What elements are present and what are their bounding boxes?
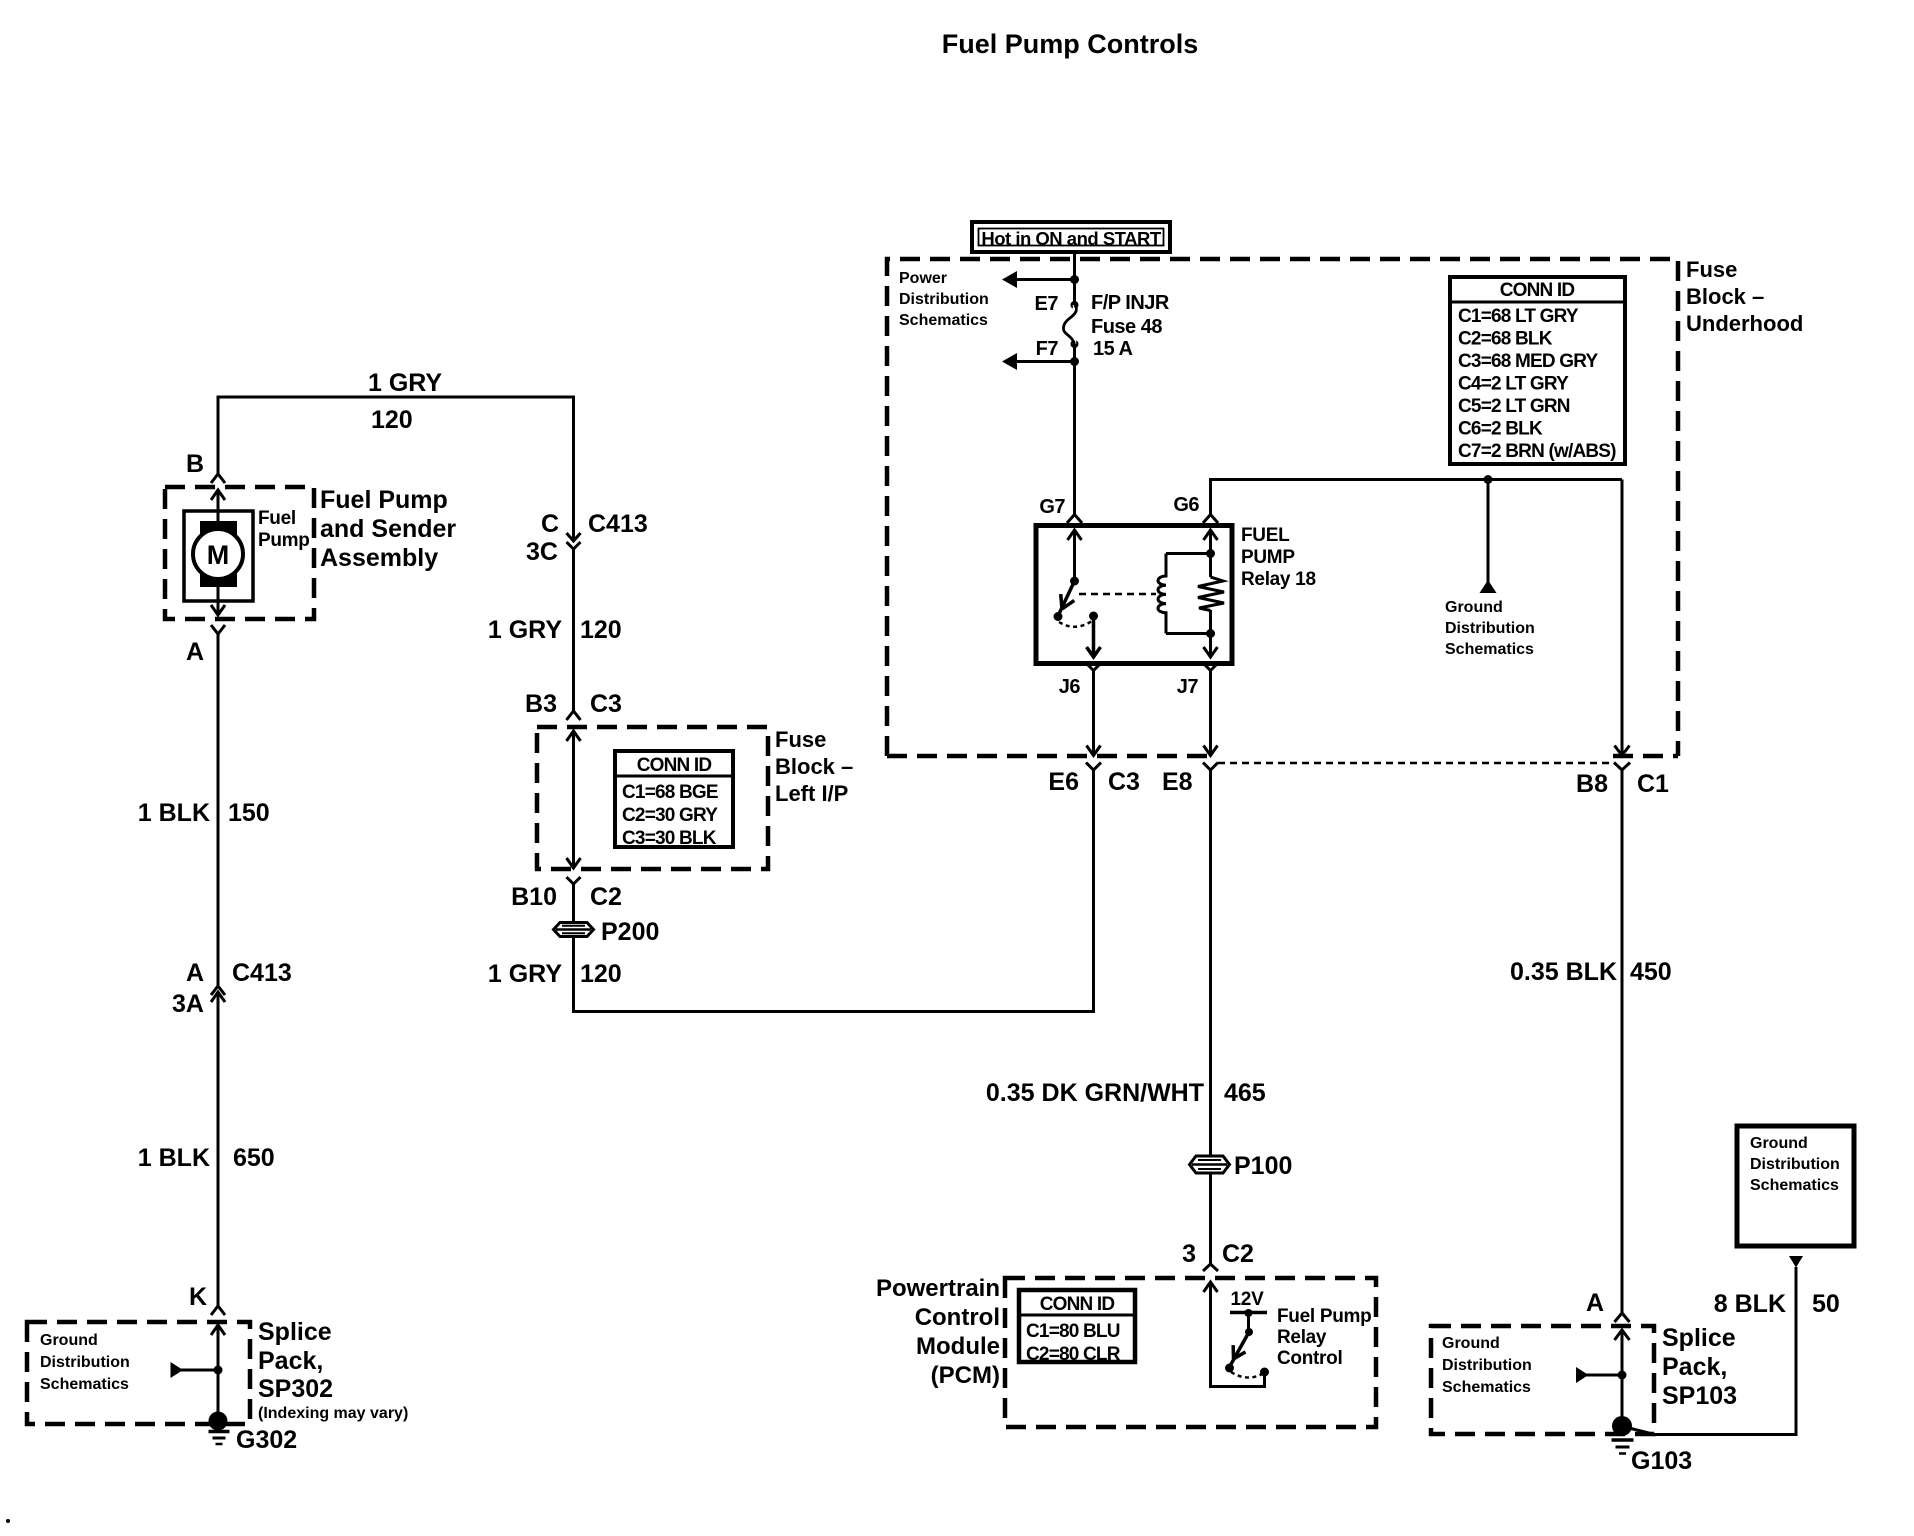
PCM driver: dashed throw arc [1231,1372,1262,1378]
PCM driver: 12V rail bar [1230,1311,1267,1315]
svg-text:(Indexing may vary): (Indexing may vary) [258,1405,408,1422]
svg-text:Distribution: Distribution [1445,620,1535,637]
junction dot at F7 feed [1070,357,1079,366]
wire J6 to fuse block edge with male arrow [1087,671,1101,756]
svg-text:Left I/P: Left I/P [775,781,848,806]
svg-text:C1: C1 [1637,770,1669,798]
svg-text:C1=68 BGE: C1=68 BGE [622,782,718,803]
label: Fuel Pump Relay Control [1277,1306,1371,1369]
svg-text:K: K [189,1283,207,1311]
svg-text:Pack,: Pack, [258,1347,323,1375]
svg-text:PUMP: PUMP [1241,547,1295,568]
svg-text:Powertrain: Powertrain [876,1275,1000,1302]
relay: coil winding [1158,554,1166,634]
splice pack SP302 branch arrow [171,1362,184,1378]
svg-text:Fuse: Fuse [1686,257,1737,282]
svg-text:120: 120 [580,960,622,988]
svg-text:12V: 12V [1231,1289,1265,1310]
PCM driver: pivot dot [1245,1328,1253,1336]
svg-text:15 A: 15 A [1093,338,1133,360]
svg-text:1 BLK: 1 BLK [138,799,210,827]
node K: male arrow into splice pack [211,1325,225,1421]
PCM dashed box [1005,1278,1376,1427]
node B10/C2: female chevron below box [567,877,581,884]
svg-text:Splice: Splice [1662,1324,1736,1352]
wire: 0.35 DK GRN/WHT 465 from E8 down to PCM [1209,770,1212,1264]
svg-text:120: 120 [371,406,413,434]
svg-text:Schematics: Schematics [899,312,988,329]
CONN ID table (underhood) [1450,277,1625,464]
svg-text:Fuse 48: Fuse 48 [1091,316,1162,338]
svg-text:CONN ID: CONN ID [1500,280,1575,301]
node A: female chevron below assembly [211,625,225,634]
off-page arrow (F7 feed) [1016,360,1075,363]
svg-text:Fuel Pump: Fuel Pump [320,486,448,514]
svg-text:B8: B8 [1576,770,1608,798]
wire from B10 to splice P200 [572,884,575,922]
relay: coil top stub [1166,552,1211,555]
label: Fuse Block - Left I/P [775,727,853,806]
svg-text:Hot in ON and START: Hot in ON and START [981,228,1161,249]
svg-text:J7: J7 [1177,676,1199,698]
wire: 0.35 BLK 450 from B8 down to splice pack A [1621,770,1624,1313]
CONN ID table (PCM) [1019,1290,1135,1365]
connector C413 pin A/3A: female chevron [211,986,225,995]
label: Ground Distribution Schematics (underhood) [1445,599,1535,658]
svg-text:B10: B10 [511,883,557,911]
svg-text:Schematics: Schematics [40,1376,129,1393]
junction dot on SP302 branch [214,1366,223,1375]
fuse label F/P INJR Fuse 48 15 A [1091,292,1170,360]
svg-text:Distribution: Distribution [899,291,989,308]
svg-text:(PCM): (PCM) [931,1362,1000,1389]
svg-text:E6: E6 [1048,768,1079,796]
svg-text:120: 120 [580,616,622,644]
node E6: female chevron below fuse block [1086,763,1101,771]
svg-text:C1=80 BLU: C1=80 BLU [1026,1321,1120,1342]
svg-text:F/P INJR: F/P INJR [1091,292,1170,314]
svg-text:C413: C413 [232,959,292,987]
svg-text:150: 150 [228,799,270,827]
svg-text:Relay: Relay [1277,1327,1327,1348]
ground G103: earth symbol [1612,1438,1634,1442]
relay: output contact dot [1089,612,1098,621]
CONN ID table (left I/P) [615,751,733,849]
label: Fuel Pump and Sender Assembly [320,486,456,572]
svg-text:C5=2 LT GRN: C5=2 LT GRN [1458,396,1570,417]
relay K18: case [1036,526,1232,664]
label: FUEL PUMP Relay 18 [1241,525,1316,590]
svg-text:Relay 18: Relay 18 [1241,569,1316,590]
relay: switch pivot dot [1070,577,1079,586]
svg-text:G6: G6 [1173,494,1199,516]
wire from Hot box down through fuse to relay G7 [1073,252,1076,514]
relay: G7 internal arrow and lead [1068,530,1082,581]
relay: actuation dashed link [1079,593,1156,596]
fuel pump motor: top brush block [200,521,237,536]
svg-text:3: 3 [1182,1240,1196,1268]
label: Powertrain Control Module (PCM) [876,1275,1000,1389]
svg-text:Ground: Ground [1442,1335,1500,1352]
svg-text:Pack,: Pack, [1662,1353,1727,1381]
svg-text:Block –: Block – [1686,284,1764,309]
splice P100 symbol [1190,1156,1230,1173]
fuse F/P INJR: element squiggle (white mask then curve) [1073,305,1076,344]
svg-text:C7=2 BRN (w/ABS): C7=2 BRN (w/ABS) [1458,441,1616,462]
svg-text:C2: C2 [1222,1240,1254,1268]
ground G302: splice ball [209,1412,228,1431]
ground G302: earth symbol [209,1430,230,1434]
svg-text:Fuse: Fuse [775,727,826,752]
ground G103: splice ball [1612,1416,1632,1436]
svg-text:Fuel Pump Controls: Fuel Pump Controls [942,29,1199,59]
splice pack SP103 branch arrow [1576,1367,1589,1383]
svg-text:C2=80 CLR: C2=80 CLR [1026,1344,1121,1365]
node J7: female chevron below relay [1203,663,1218,671]
fuel pump motor: bottom brush block [200,572,237,587]
label: Ground Distribution Schematics (SP103) [1442,1335,1532,1396]
svg-text:1 GRY: 1 GRY [488,960,562,988]
svg-text:E8: E8 [1162,768,1193,796]
svg-text:C6=2 BLK: C6=2 BLK [1458,419,1543,440]
svg-text:1 GRY: 1 GRY [368,369,442,397]
svg-text:C2: C2 [590,883,622,911]
svg-text:Underhood: Underhood [1686,311,1803,336]
relay: junction dots on resistor lead [1206,549,1215,558]
node A (SP103): female chevron [1615,1313,1630,1322]
svg-text:Splice: Splice [258,1318,332,1346]
svg-text:50: 50 [1812,1290,1840,1318]
label: Splice Pack, SP103 [1662,1324,1737,1410]
svg-text:C2=30 GRY: C2=30 GRY [622,805,718,826]
svg-text:8 BLK: 8 BLK [1714,1290,1786,1318]
PCM driver: blade arrowhead [1227,1345,1245,1362]
node J6: female chevron below relay [1086,663,1101,671]
svg-text:Pump: Pump [258,530,310,551]
wire: 1 GRY 120 from P200 down and right up to E6 [574,770,1094,1012]
label: Fuel Pump (inside assembly) [258,508,310,551]
svg-text:465: 465 [1224,1079,1266,1107]
fuse F/P INJR Fuse 48 15 A: terminal dots [1071,301,1079,309]
svg-text:Schematics: Schematics [1445,641,1534,658]
node B3: female chevron [567,711,581,720]
fuel pump and sender assembly dashed box [165,487,314,619]
PCM driver: link to switch pivot [1247,1313,1250,1332]
svg-text:0.35 DK GRN/WHT: 0.35 DK GRN/WHT [986,1079,1204,1107]
svg-text:E7: E7 [1035,293,1059,315]
relay: resistor zigzag [1198,577,1224,611]
svg-text:Control: Control [1277,1348,1342,1369]
PCM driver: switch blade [1230,1332,1249,1366]
svg-text:C413: C413 [588,510,648,538]
ground distribution schematics solid box [1737,1126,1854,1246]
label: Power Distribution Schematics [899,270,989,329]
wire: 1 BLK 150 from pump A down to C413 [217,634,220,986]
node G7: female chevron [1067,515,1082,524]
svg-text:Power: Power [899,270,947,287]
node K: female chevron [211,1306,225,1315]
svg-text:Distribution: Distribution [40,1354,130,1371]
svg-text:A: A [1586,1289,1604,1317]
splice pack SP103 dashed box [1431,1326,1654,1434]
Hot in ON and START callout box [972,222,1170,252]
node B8: female chevron below fuse block [1614,763,1630,771]
node G6: female chevron [1203,515,1218,524]
PCM driver: blade tip dot [1225,1364,1234,1373]
wire: B8 lead inside fuse block with male arrow [1615,480,1630,756]
connector C413 pin A/3A: male arrow up [211,992,225,1002]
fuel pump motor: rotor circle [193,529,243,579]
relay: blade arrowhead [1055,594,1074,612]
svg-text:P200: P200 [601,918,659,946]
PCM driver: rail dot [1245,1309,1253,1317]
svg-text:CONN ID: CONN ID [637,755,712,776]
junction dot on SP103 branch [1618,1371,1627,1380]
svg-text:3A: 3A [172,990,204,1018]
node A (SP103): male arrow into splice pack [1615,1330,1630,1421]
svg-text:0.35 BLK: 0.35 BLK [1510,958,1617,986]
svg-text:A: A [186,959,204,987]
wire J7 to fuse block edge with male arrow [1204,671,1218,756]
svg-text:C1=68 LT GRY: C1=68 LT GRY [1458,306,1579,327]
splice pack SP302 dashed box [27,1322,250,1424]
stray mark bottom left [6,1519,10,1523]
fuse block left I/P dashed box [537,727,768,869]
svg-text:1 BLK: 1 BLK [138,1144,210,1172]
svg-text:Ground: Ground [1750,1135,1808,1152]
svg-text:B: B [186,450,204,478]
relay: coil bottom stub [1166,632,1211,635]
svg-text:Ground: Ground [1445,599,1503,616]
label: Ground Distribution Schematics (SP302) [40,1332,130,1393]
svg-text:C: C [541,510,559,538]
relay: output lead with arrow down [1087,616,1101,657]
node B: male arrow into assembly [211,490,225,529]
svg-text:3C: 3C [526,538,558,566]
off-page triangle to ground distribution (underhood) [1480,580,1497,593]
svg-text:SP302: SP302 [258,1375,333,1403]
svg-text:C4=2 LT GRY: C4=2 LT GRY [1458,374,1569,395]
connector C1 face dashed line (E8 to B8) [1218,762,1613,765]
svg-text:P100: P100 [1234,1152,1292,1180]
svg-text:A: A [186,638,204,666]
connector C413 pin C/3C: male arrow down [567,533,581,541]
svg-text:Assembly: Assembly [320,544,438,572]
fuse block underhood dashed box (bottom edge split) [887,259,1678,756]
fuse block left I/P internal wire with arrows both ends [567,731,581,868]
svg-text:Schematics: Schematics [1750,1177,1839,1194]
splice P200 symbol [554,923,594,937]
svg-text:Ground: Ground [40,1332,98,1349]
label: Ground Distribution Schematics (solid box) [1750,1135,1840,1194]
wire: 8 BLK 50 from triangle down and left to G103 [1629,1267,1796,1435]
label: Splice Pack, SP302 [258,1318,333,1403]
wire: 1 GRY 120 from C413 down to fuse block left I/P B3 [572,549,575,711]
label: Fuse Block - Underhood [1686,257,1803,336]
node 3/C2: female chevron [1203,1264,1218,1271]
relay: dashed throw arc [1059,621,1092,627]
svg-text:G302: G302 [236,1426,297,1454]
svg-text:M: M [207,540,230,570]
connector C413 pin C/3C: female chevron [567,542,581,549]
svg-text:J6: J6 [1059,676,1081,698]
svg-text:CONN ID: CONN ID [1040,1294,1115,1315]
svg-text:and Sender: and Sender [320,515,456,543]
PCM driver: output contact dot [1260,1368,1269,1377]
node E8: female chevron below fuse block [1203,763,1218,771]
relay: blade tip contact dot [1054,612,1063,621]
svg-text:Fuel: Fuel [258,508,296,529]
svg-text:Distribution: Distribution [1442,1357,1532,1374]
relay: switch blade [1058,581,1075,616]
fuel pump motor M1: outer case [184,511,253,601]
wire: 1 BLK 650 from C413 3A down to splice pack K [217,992,220,1306]
svg-text:G103: G103 [1631,1447,1692,1475]
wire: ground branch from G6 feed [1484,475,1493,484]
relay: G6 internal arrow and resistor lead [1204,530,1218,657]
svg-text:Distribution: Distribution [1750,1156,1840,1173]
node B: female chevron [211,474,225,483]
wire: motor bottom lead with male arrow down [211,579,225,615]
svg-text:FUEL: FUEL [1241,525,1290,546]
off-page triangle below solid box [1789,1256,1803,1268]
wire: 1 GRY 120 net from fuel pump B to C413 (top run) [218,397,574,541]
wire: G6 feed from fuse block right to relay [1211,480,1623,515]
svg-text:Block –: Block – [775,754,853,779]
svg-text:C3=68 MED GRY: C3=68 MED GRY [1458,351,1598,372]
svg-text:SP103: SP103 [1662,1382,1737,1410]
svg-text:C3=30 BLK: C3=30 BLK [622,828,717,849]
PCM driver: output lead with male arrow up [1204,1282,1265,1387]
junction dot at E7 feed [1070,275,1079,284]
svg-text:Fuel Pump: Fuel Pump [1277,1306,1371,1327]
off-page arrow (E7 feed) [1016,278,1075,281]
svg-text:C3: C3 [1108,768,1140,796]
svg-text:650: 650 [233,1144,275,1172]
svg-text:G7: G7 [1039,496,1065,518]
svg-text:Schematics: Schematics [1442,1379,1531,1396]
svg-text:C3: C3 [590,690,622,718]
svg-text:F7: F7 [1036,338,1059,360]
svg-text:450: 450 [1630,958,1672,986]
svg-text:B3: B3 [525,690,557,718]
svg-text:Module: Module [916,1333,1000,1360]
svg-text:1 GRY: 1 GRY [488,616,562,644]
svg-text:C2=68 BLK: C2=68 BLK [1458,329,1553,350]
svg-text:Control: Control [915,1304,1000,1331]
